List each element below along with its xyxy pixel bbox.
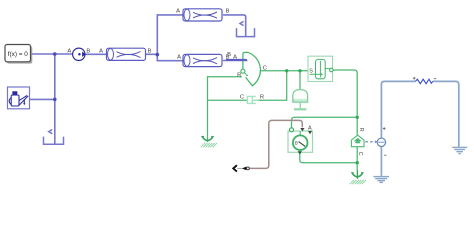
svg-text:R: R [260,95,264,101]
svg-text:θ: θ [295,141,298,147]
svg-text:A: A [176,9,180,15]
svg-text:B: B [148,49,152,55]
svg-text:C: C [357,152,363,156]
svg-text:C: C [263,66,267,72]
svg-text:B: B [226,9,230,15]
svg-text:A: A [177,55,181,61]
svg-text:R: R [237,73,241,79]
svg-text:S: S [309,69,313,75]
svg-text:A: A [67,49,71,55]
svg-text:f(x) = 0: f(x) = 0 [8,51,29,58]
svg-text:R: R [358,128,364,132]
svg-text:A: A [99,49,103,55]
svg-text:B: B [86,49,90,55]
svg-text:B: B [227,52,231,58]
svg-text:C: C [240,95,244,101]
svg-text:A: A [308,125,312,131]
